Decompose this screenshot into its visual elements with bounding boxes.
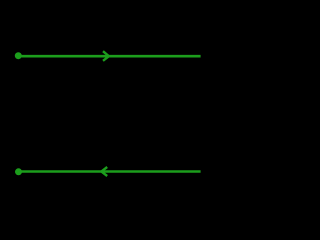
arrowhead ray2 (points left) (101, 167, 107, 176)
node ray2 start dot (15, 168, 22, 175)
wire ray1 (17, 55, 201, 58)
wire ray2 (17, 170, 201, 173)
node ray1 start dot (15, 52, 22, 59)
arrowhead ray1 (points right) (103, 51, 109, 61)
